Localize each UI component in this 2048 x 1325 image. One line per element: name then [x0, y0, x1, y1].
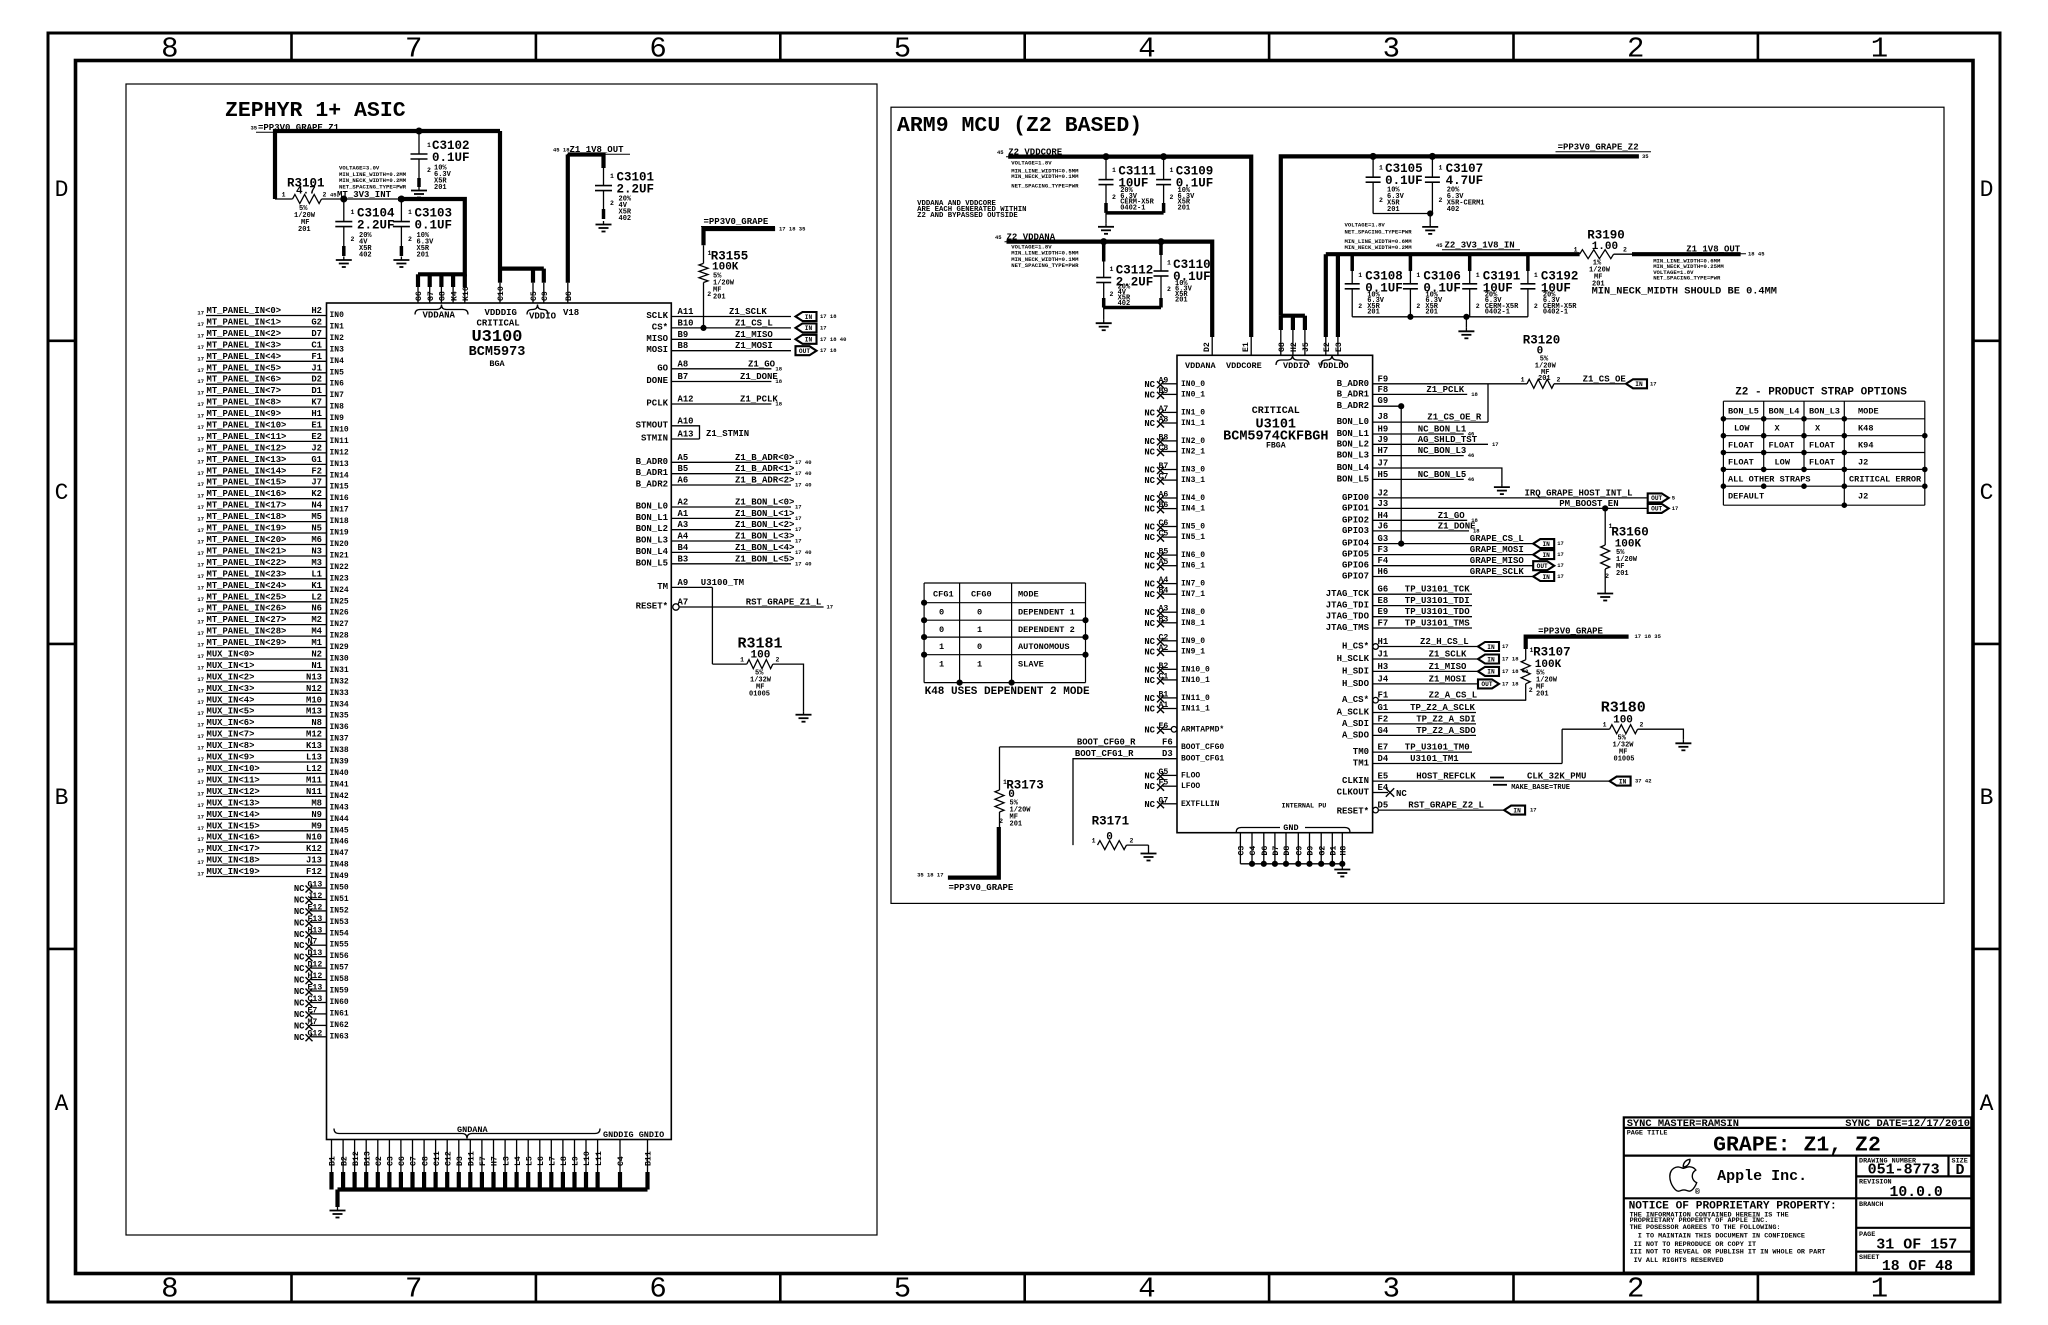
net PP3V0_GRAPE (R3107) — [1526, 627, 1662, 650]
svg-text:C5: C5 — [530, 291, 539, 301]
node Z1_STMIN pins A10 A13 — [636, 416, 750, 443]
node MT_PANEL_IN<4> pin F1 — [197, 352, 344, 366]
svg-text:SYNC DATE=12/17/2010: SYNC DATE=12/17/2010 — [1845, 1118, 1970, 1130]
pin C10 VDDDIG — [497, 269, 506, 303]
svg-text:Z1_BON_L<4>: Z1_BON_L<4> — [735, 543, 794, 553]
svg-text:D3: D3 — [1162, 749, 1173, 759]
svg-text:J1: J1 — [311, 363, 322, 373]
svg-text:IN11_0: IN11_0 — [1181, 694, 1210, 703]
svg-text:201: 201 — [298, 226, 311, 234]
svg-text:MT_PANEL_IN<1>: MT_PANEL_IN<1> — [207, 317, 282, 327]
node MUX_IN<19> pin F12 — [197, 867, 349, 881]
svg-text:17: 17 — [1502, 643, 1509, 650]
svg-text:MUX_IN<1>: MUX_IN<1> — [207, 661, 255, 671]
svg-text:PCLK: PCLK — [646, 399, 668, 409]
svg-text:MAKE_BASE=TRUE: MAKE_BASE=TRUE — [1511, 784, 1570, 792]
svg-text:IN40: IN40 — [330, 769, 349, 778]
svg-text:45: 45 — [997, 149, 1004, 156]
svg-text:17: 17 — [197, 790, 204, 797]
svg-text:A13: A13 — [678, 430, 694, 440]
svg-text:B6: B6 — [565, 291, 574, 301]
svg-text:17: 17 — [827, 604, 834, 611]
node TP_U3101_TDI pin E8 — [1326, 596, 1472, 611]
node MUX_IN<4> pin M10 — [197, 695, 349, 709]
node MT_PANEL_IN<0> pin H2 — [197, 306, 344, 320]
node MUX_IN<7> pin M12 — [197, 730, 349, 744]
svg-text:=PP3V0_GRAPE: =PP3V0_GRAPE — [704, 217, 769, 227]
svg-text:IN9_1: IN9_1 — [1181, 647, 1205, 656]
svg-text:GNDDIG GNDIO: GNDDIG GNDIO — [603, 1130, 664, 1140]
svg-text:MUX_IN<11>: MUX_IN<11> — [207, 776, 260, 786]
svg-text:NC: NC — [1144, 665, 1155, 675]
node Z1_DONE pin J6 GPIO3 — [1342, 521, 1480, 536]
svg-text:D8: D8 — [1283, 846, 1292, 856]
svg-text:VDDIO: VDDIO — [1283, 361, 1309, 371]
svg-text:J9: J9 — [1378, 435, 1389, 445]
svg-text:N3: N3 — [311, 547, 322, 557]
svg-text:JTAG_TDO: JTAG_TDO — [1326, 612, 1370, 622]
svg-text:VDDANA: VDDANA — [1185, 361, 1217, 371]
node Z1_CS_OE flag — [1583, 374, 1657, 388]
svg-text:2: 2 — [1358, 303, 1362, 310]
svg-text:1: 1 — [1521, 376, 1525, 383]
svg-text:NC: NC — [294, 1033, 305, 1043]
svg-text:B_ADR0: B_ADR0 — [636, 457, 668, 467]
svg-text:A: A — [1980, 1091, 1994, 1117]
svg-text:BOOT_CFG1: BOOT_CFG1 — [1181, 755, 1224, 764]
svg-text:2: 2 — [1627, 33, 1644, 66]
svg-text:IN7: IN7 — [330, 391, 345, 400]
node NC pin A8 IN1_1 — [1144, 416, 1205, 430]
svg-text:CFG1: CFG1 — [933, 590, 954, 600]
node MUX_IN<12> pin N11 — [197, 787, 349, 801]
pin B6 V18 — [565, 283, 574, 303]
svg-text:G6: G6 — [1378, 585, 1389, 595]
svg-text:17: 17 — [197, 447, 204, 454]
svg-text:M4: M4 — [311, 627, 322, 637]
svg-text:2: 2 — [707, 291, 711, 298]
svg-text:IN9: IN9 — [330, 414, 345, 423]
svg-text:Z1_1V8_OUT: Z1_1V8_OUT — [1686, 245, 1741, 255]
svg-text:NC: NC — [294, 964, 305, 974]
svg-text:201: 201 — [713, 294, 726, 302]
svg-text:17: 17 — [197, 493, 204, 500]
svg-text:RST_GRAPE_Z2_L: RST_GRAPE_Z2_L — [1408, 801, 1484, 811]
svg-text:C7: C7 — [410, 1156, 419, 1166]
svg-text:402: 402 — [1447, 206, 1460, 214]
svg-text:MT_PANEL_IN<3>: MT_PANEL_IN<3> — [207, 340, 282, 350]
svg-text:17: 17 — [197, 699, 204, 706]
node B_ADR0 pin F9 (Z1_CS_OE_R) — [1337, 374, 1527, 389]
node NC pin N7 IN55 — [294, 938, 349, 952]
svg-text:IN44: IN44 — [330, 815, 349, 824]
svg-text:201: 201 — [1425, 309, 1438, 317]
svg-text:17 18: 17 18 — [820, 347, 837, 354]
node RST_GRAPE_Z2_L pin D5 RESET* — [1373, 801, 1537, 815]
svg-text:GPIO4: GPIO4 — [1342, 539, 1370, 549]
svg-text:2.2UF: 2.2UF — [617, 183, 655, 197]
svg-text:FLOAT: FLOAT — [1809, 458, 1835, 468]
svg-text:N9: N9 — [311, 810, 322, 820]
title block internals — [1624, 1118, 1972, 1275]
svg-text:E1: E1 — [1242, 342, 1251, 352]
svg-text:1: 1 — [740, 657, 744, 664]
svg-text:K1: K1 — [311, 581, 322, 591]
svg-text:B_ADR0: B_ADR0 — [1337, 379, 1369, 389]
svg-text:DEPENDENT 1: DEPENDENT 1 — [1018, 608, 1075, 618]
svg-text:1: 1 — [1379, 165, 1383, 172]
svg-text:IN22: IN22 — [330, 563, 349, 572]
svg-text:V18: V18 — [563, 308, 579, 318]
svg-text:MT_PANEL_IN<24>: MT_PANEL_IN<24> — [207, 581, 287, 591]
wire VDDDIG VDDIO supply — [498, 131, 544, 269]
svg-text:FLOAT: FLOAT — [1728, 458, 1754, 468]
svg-text:IN4_0: IN4_0 — [1181, 494, 1205, 503]
svg-text:F2: F2 — [1378, 714, 1389, 724]
svg-text:NC: NC — [1144, 380, 1155, 390]
svg-text:17 18 35: 17 18 35 — [1635, 633, 1662, 640]
svg-text:GPIO6: GPIO6 — [1342, 561, 1369, 571]
svg-text:BON_L4: BON_L4 — [1337, 463, 1370, 473]
svg-text:BON_L4: BON_L4 — [1769, 407, 1800, 417]
node GRAPE_MOSI pin F3 GPIO5 — [1342, 545, 1564, 560]
svg-text:IN14: IN14 — [330, 471, 349, 480]
svg-text:IN5: IN5 — [330, 368, 345, 377]
svg-text:2: 2 — [1416, 303, 1420, 310]
svg-text:J2: J2 — [311, 443, 322, 453]
node MT_PANEL_IN<23> pin L1 — [197, 569, 349, 583]
node MUX_IN<18> pin J13 — [197, 856, 349, 870]
node MT_PANEL_IN<5> pin J1 — [197, 363, 344, 377]
svg-text:C9: C9 — [1296, 846, 1305, 856]
svg-text:MT_PANEL_IN<18>: MT_PANEL_IN<18> — [207, 512, 287, 522]
svg-text:NC: NC — [1396, 789, 1407, 799]
node NC pin H12 IN58 — [294, 972, 349, 986]
svg-text:HOST_REFCLK: HOST_REFCLK — [1416, 772, 1476, 782]
capacitor C3105 — [1366, 156, 1423, 214]
svg-text:G6: G6 — [415, 291, 424, 301]
svg-text:MT_PANEL_IN<14>: MT_PANEL_IN<14> — [207, 466, 287, 476]
svg-text:VDDDIG: VDDDIG — [485, 308, 517, 318]
svg-text:IN57: IN57 — [330, 964, 349, 973]
svg-text:R3171: R3171 — [1092, 815, 1130, 829]
capacitor C3112 — [1096, 242, 1153, 308]
svg-text:1: 1 — [1110, 266, 1114, 273]
svg-text:IN: IN — [1619, 778, 1627, 785]
svg-text:NC: NC — [1144, 390, 1155, 400]
svg-text:RESET*: RESET* — [636, 602, 668, 612]
svg-text:17 18: 17 18 — [1502, 656, 1519, 663]
svg-text:Z1_SCLK: Z1_SCLK — [729, 307, 767, 317]
svg-text:IN8_0: IN8_0 — [1181, 608, 1205, 617]
svg-text:STMIN: STMIN — [641, 434, 668, 444]
node NC pin B6 IN4_1 — [1144, 501, 1205, 514]
svg-text:402: 402 — [619, 215, 632, 223]
node U3100_TM pin A9 — [657, 578, 744, 592]
svg-text:AG_SHLD_TST: AG_SHLD_TST — [1418, 435, 1478, 445]
svg-text:17: 17 — [1492, 441, 1499, 448]
svg-text:1: 1 — [939, 642, 944, 652]
svg-text:BON_L4: BON_L4 — [636, 547, 669, 557]
svg-text:IN7_0: IN7_0 — [1181, 580, 1205, 589]
node MT_PANEL_IN<14> pin F2 — [197, 466, 349, 480]
svg-text:IN42: IN42 — [330, 792, 349, 801]
svg-text:17: 17 — [197, 321, 204, 328]
svg-text:2.2UF: 2.2UF — [357, 219, 395, 233]
node AG_SHLD_TST pin J9 — [1337, 435, 1499, 450]
svg-text:17 18 40: 17 18 40 — [820, 336, 846, 343]
svg-text:C: C — [55, 480, 69, 506]
svg-text:TP_U3101_TDI: TP_U3101_TDI — [1405, 596, 1470, 606]
node NC pin A1 IN11_1 — [1144, 701, 1210, 715]
svg-text:01005: 01005 — [749, 691, 770, 699]
svg-text:NC: NC — [1144, 608, 1155, 618]
svg-text:A: A — [55, 1091, 69, 1117]
svg-text:Z1_STMIN: Z1_STMIN — [706, 429, 749, 439]
svg-text:1: 1 — [939, 660, 944, 670]
svg-text:D9: D9 — [1307, 846, 1316, 856]
svg-text:1: 1 — [1167, 260, 1171, 267]
svg-text:H9: H9 — [1378, 425, 1389, 435]
svg-text:NC: NC — [1144, 448, 1155, 458]
node NC pin C8 IN2_1 — [1144, 444, 1205, 458]
svg-text:17: 17 — [197, 733, 204, 740]
svg-text:ALL OTHER STRAPS: ALL OTHER STRAPS — [1728, 475, 1811, 485]
svg-text:GRAPE_SCLK: GRAPE_SCLK — [1470, 567, 1525, 577]
svg-text:17: 17 — [197, 310, 204, 317]
svg-text:2: 2 — [1623, 247, 1627, 254]
svg-text:IN61: IN61 — [330, 1009, 349, 1018]
svg-text:NC: NC — [1144, 694, 1155, 704]
svg-text:NET_SPACING_TYPE=PWR: NET_SPACING_TYPE=PWR — [1011, 262, 1079, 269]
svg-text:M9: M9 — [311, 821, 322, 831]
svg-text:IN0_1: IN0_1 — [1181, 390, 1205, 399]
svg-text:17: 17 — [197, 367, 204, 374]
svg-text:TM: TM — [657, 582, 668, 592]
net PP3V0_GRAPE (R3155) — [701, 217, 806, 245]
node HOST_REFCLK CLK_32K_PMU pin E5 CLKIN — [1342, 772, 1652, 792]
svg-text:18: 18 — [775, 378, 782, 385]
node MUX_IN<2> pin N13 — [197, 672, 349, 686]
svg-text:BON_L1: BON_L1 — [1337, 429, 1370, 439]
node Z1_B_ADR<2> pin A6 — [636, 476, 812, 490]
svg-text:2: 2 — [1534, 303, 1538, 310]
svg-text:Z1_B_ADR<2>: Z1_B_ADR<2> — [735, 476, 794, 486]
svg-text:6: 6 — [649, 1273, 666, 1306]
IC U3101 BCM5974CKFBGH — [1177, 355, 1373, 833]
pins G8 H2 J5 VDDIO — [1278, 316, 1311, 356]
svg-text:Z1_PCLK: Z1_PCLK — [1426, 385, 1464, 395]
svg-text:H1: H1 — [1378, 637, 1389, 647]
resistor R3155 — [699, 245, 748, 330]
node Z1_PCLK pin F8 — [1337, 385, 1479, 400]
svg-text:D2: D2 — [311, 375, 322, 385]
svg-text:17 18: 17 18 — [1502, 680, 1519, 687]
svg-text:N10: N10 — [306, 833, 322, 843]
svg-text:M5: M5 — [311, 512, 322, 522]
svg-text:201: 201 — [1616, 570, 1629, 578]
svg-text:NC: NC — [294, 930, 305, 940]
svg-text:M8: M8 — [311, 798, 322, 808]
svg-text:17: 17 — [820, 324, 827, 331]
svg-text:IN: IN — [1542, 541, 1550, 548]
svg-text:17: 17 — [197, 413, 204, 420]
svg-text:TP_Z2_A_SDO: TP_Z2_A_SDO — [1416, 726, 1476, 736]
svg-text:H_SCLK: H_SCLK — [1337, 654, 1370, 664]
svg-text:K13: K13 — [306, 741, 322, 751]
node TP_Z2_A_SDI pin F2 — [1342, 714, 1476, 729]
svg-text:17: 17 — [197, 607, 204, 614]
svg-text:NC: NC — [294, 1010, 305, 1020]
svg-text:GPIO5: GPIO5 — [1342, 550, 1369, 560]
svg-text:BON_L3: BON_L3 — [636, 536, 668, 546]
svg-text:C3: C3 — [387, 1156, 396, 1166]
node NC pin E4 CLKOUT — [1337, 783, 1408, 799]
node MT_PANEL_IN<21> pin N3 — [197, 547, 349, 561]
node Z1_BON_L<1> pin A1 — [636, 509, 802, 523]
svg-text:2: 2 — [610, 200, 614, 207]
net Z2_3V3_1V8_IN — [1326, 241, 1580, 338]
svg-text:1: 1 — [1574, 247, 1578, 254]
svg-text:IN3: IN3 — [330, 345, 345, 354]
svg-text:E3: E3 — [1335, 342, 1344, 352]
svg-text:IN53: IN53 — [330, 918, 349, 927]
svg-text:IN31: IN31 — [330, 666, 349, 675]
svg-text:2: 2 — [1557, 376, 1561, 383]
svg-text:0: 0 — [977, 608, 982, 618]
node B_ADR2 pin G9 — [1337, 396, 1404, 543]
svg-text:IN43: IN43 — [330, 803, 349, 812]
svg-text:17: 17 — [197, 516, 204, 523]
wire PP3V0_GRAPE_Z1 power — [275, 128, 500, 199]
svg-text:1: 1 — [1092, 838, 1096, 845]
node Z1_CS_L pin B10 — [652, 318, 827, 332]
svg-text:K10: K10 — [462, 286, 471, 301]
svg-text:17: 17 — [197, 802, 204, 809]
svg-text:NC: NC — [1144, 551, 1155, 561]
svg-text:B2: B2 — [340, 1156, 349, 1166]
svg-text:17 40: 17 40 — [795, 482, 812, 489]
node MT_PANEL_IN<13> pin G1 — [197, 455, 349, 469]
resistor R3160 — [1601, 508, 1649, 590]
svg-text:OUT: OUT — [799, 348, 810, 355]
svg-text:H_CS*: H_CS* — [1342, 642, 1369, 652]
svg-text:NC: NC — [294, 907, 305, 917]
svg-text:H4: H4 — [1378, 511, 1389, 521]
svg-text:18 45: 18 45 — [1748, 250, 1765, 257]
svg-text:IN41: IN41 — [330, 781, 349, 790]
svg-text:E7: E7 — [1378, 743, 1389, 753]
svg-text:201: 201 — [1387, 206, 1400, 214]
node Z1_BON_L<5> pin B3 — [636, 554, 812, 568]
svg-text:STMOUT: STMOUT — [636, 420, 669, 430]
svg-text:H_SDO: H_SDO — [1342, 679, 1370, 689]
node U3101_TM1 pin D4 — [1353, 729, 1562, 768]
svg-text:IN1: IN1 — [330, 322, 345, 331]
svg-text:1: 1 — [977, 660, 982, 670]
svg-text:NC: NC — [1144, 800, 1155, 810]
net Z1_1V8_OUT (right) — [1592, 245, 1777, 298]
svg-text:17: 17 — [197, 527, 204, 534]
ground — [1141, 850, 1157, 861]
capacitor C3104 — [335, 199, 395, 260]
svg-text:IN4_1: IN4_1 — [1181, 505, 1205, 514]
svg-text:N4: N4 — [311, 501, 322, 511]
svg-text:D4: D4 — [1378, 754, 1389, 764]
svg-text:NC: NC — [1144, 619, 1155, 629]
svg-text:RST_GRAPE_Z1_L: RST_GRAPE_Z1_L — [746, 598, 822, 608]
svg-text:MT_PANEL_IN<27>: MT_PANEL_IN<27> — [207, 615, 287, 625]
svg-text:17: 17 — [197, 665, 204, 672]
svg-text:17: 17 — [197, 355, 204, 362]
ground — [1597, 590, 1613, 601]
svg-text:BON_L0: BON_L0 — [636, 502, 668, 512]
svg-text:MUX_IN<16>: MUX_IN<16> — [207, 833, 260, 843]
svg-text:IN20: IN20 — [330, 540, 349, 549]
svg-text:=PP3V0_GRAPE: =PP3V0_GRAPE — [949, 883, 1014, 893]
label GND brace — [1236, 823, 1350, 833]
svg-text:17 40: 17 40 — [795, 549, 812, 556]
ground — [1098, 223, 1114, 234]
svg-text:IN5_1: IN5_1 — [1181, 533, 1205, 542]
svg-text:402: 402 — [359, 252, 372, 260]
svg-text:G7: G7 — [427, 291, 436, 301]
node NC pin B8 IN2_0 — [1144, 433, 1205, 447]
svg-text:MT_PANEL_IN<10>: MT_PANEL_IN<10> — [207, 421, 287, 431]
svg-text:MT_PANEL_IN<15>: MT_PANEL_IN<15> — [207, 478, 287, 488]
svg-text:17 40: 17 40 — [795, 470, 812, 477]
node NC pin E6 ARMTAPMD* — [1144, 722, 1224, 736]
net PP3V0_GRAPE_Z2 — [1281, 143, 1651, 316]
svg-text:MIN_NECK_WIDTH=0.1MM: MIN_NECK_WIDTH=0.1MM — [1011, 173, 1079, 180]
node NC pin B1 IN11_0 — [1144, 690, 1210, 704]
svg-text:IN6_1: IN6_1 — [1181, 562, 1205, 571]
svg-text:6: 6 — [649, 33, 666, 66]
svg-text:IN6: IN6 — [330, 380, 345, 389]
node TP_U3101_TCK pin G6 — [1326, 585, 1472, 600]
Apple logo — [1670, 1159, 1697, 1191]
svg-text:Z1_SCLK: Z1_SCLK — [1429, 650, 1467, 660]
svg-text:OUT: OUT — [1481, 681, 1492, 688]
svg-text:BRANCH: BRANCH — [1859, 1201, 1883, 1209]
svg-text:MT_PANEL_IN<7>: MT_PANEL_IN<7> — [207, 386, 282, 396]
svg-text:PAGE TITLE: PAGE TITLE — [1627, 1129, 1668, 1137]
svg-text:BOOT_CFG1_R: BOOT_CFG1_R — [1075, 749, 1134, 759]
svg-text:GPIO1: GPIO1 — [1342, 503, 1370, 513]
svg-text:3: 3 — [1383, 33, 1400, 66]
svg-text:IN33: IN33 — [330, 689, 349, 698]
svg-text:MUX_IN<3>: MUX_IN<3> — [207, 684, 255, 694]
svg-text:0402-1: 0402-1 — [1543, 309, 1568, 317]
resistor R3181 — [712, 636, 803, 712]
svg-text:BON_L5: BON_L5 — [636, 558, 668, 568]
svg-text:CRITICAL: CRITICAL — [477, 319, 520, 329]
svg-text:GNDANA: GNDANA — [457, 1125, 489, 1135]
svg-text:MT_PANEL_IN<5>: MT_PANEL_IN<5> — [207, 363, 282, 373]
svg-text:IN35: IN35 — [330, 712, 349, 721]
svg-text:NC: NC — [1144, 419, 1155, 429]
svg-text:BON_L0: BON_L0 — [1337, 417, 1369, 427]
svg-text:NC: NC — [294, 918, 305, 928]
ground — [1458, 328, 1474, 339]
node MT_PANEL_IN<26> pin N6 — [197, 604, 349, 618]
svg-text:X: X — [1815, 424, 1821, 434]
node GRAPE_MISO pin F4 GPIO6 — [1342, 556, 1564, 571]
svg-text:E2: E2 — [1323, 342, 1332, 352]
svg-text:18: 18 — [775, 401, 782, 408]
svg-text:IN18: IN18 — [330, 517, 349, 526]
svg-text:17 40: 17 40 — [795, 459, 812, 466]
